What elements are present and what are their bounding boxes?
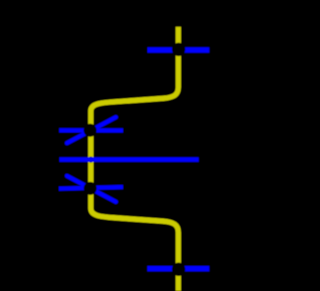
wire: upper horizontal stroke through node A xyxy=(59,128,123,132)
wire: middle blue bus line xyxy=(59,157,198,162)
wire: upper diagonal stroke through node A xyxy=(67,117,116,143)
wire: lower diagonal stroke through node B xyxy=(67,176,116,202)
wire: yellow S-channel from top terminal to bottom terminal xyxy=(91,27,179,291)
node: top terminal crossing blob xyxy=(172,43,185,56)
node A: upper black dot xyxy=(84,124,97,137)
wire: lower horizontal stroke through node B xyxy=(59,187,123,189)
wire: bottom blue crossbar xyxy=(147,266,209,272)
node: bottom terminal crossing blob xyxy=(172,263,185,276)
node B: lower black dot xyxy=(84,182,97,195)
wire: top blue crossbar xyxy=(148,47,210,53)
node: middle crossing hop (dark disk under bus line) xyxy=(88,157,94,163)
